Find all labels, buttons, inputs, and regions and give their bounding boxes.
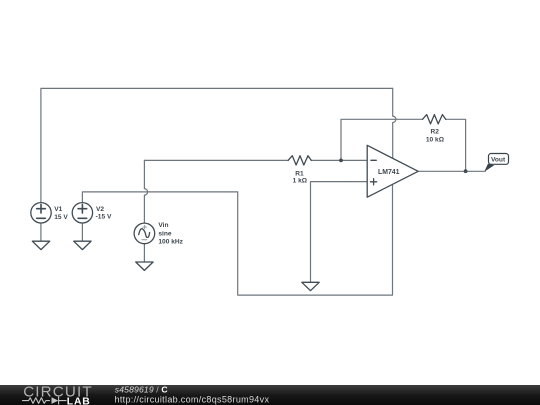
- wire: Vin top vertical with hop over V2 rail: [144, 160, 147, 223]
- resistor R2: [423, 115, 446, 124]
- svg-text:R2: R2: [431, 128, 440, 135]
- wire: V2 bottom to ground: [81, 223, 83, 241]
- wire: R2 right down to output node: [446, 119, 466, 171]
- wire: V1 bottom to ground: [40, 223, 42, 241]
- wire: V2 top to negative supply rail to op-amp V- pin: [82, 185, 392, 296]
- wire: top rail from V1 to op-amp V+ pin: [41, 88, 393, 202]
- svg-text:Vin: Vin: [158, 222, 168, 229]
- svg-text:http://circuitlab.com/c8qs58ru: http://circuitlab.com/c8qs58rum94vx: [115, 395, 270, 405]
- ground symbol under Vin: [136, 262, 153, 270]
- op-amp U1 LM741: [367, 145, 418, 197]
- svg-text:s4589619 / C: s4589619 / C: [115, 385, 168, 395]
- wire: Vin bottom to ground: [143, 244, 145, 262]
- wire: non-inverting input to ground: [311, 182, 368, 283]
- svg-text:LAB: LAB: [67, 397, 91, 405]
- svg-text:Vout: Vout: [491, 157, 506, 164]
- logo resistor zigzag: [23, 398, 50, 404]
- svg-text:100 kHz: 100 kHz: [158, 239, 183, 246]
- wire: feedback node up and across to R2 left: [341, 119, 423, 160]
- wire: Vin node to R1 left: [144, 159, 288, 161]
- svg-text:1 kΩ: 1 kΩ: [293, 177, 308, 184]
- ground symbol under V2: [74, 241, 91, 249]
- wire: R1 right to op-amp inverting input: [311, 159, 367, 161]
- svg-text:15 V: 15 V: [54, 214, 68, 221]
- voltage source V1: [31, 203, 51, 223]
- svg-text:10 kΩ: 10 kΩ: [426, 137, 445, 144]
- footer bar background: [0, 385, 540, 405]
- wire: op-amp V+ pin vertical with hop over feedback: [393, 88, 396, 157]
- wire: op-amp output to Vout flag: [418, 170, 485, 172]
- node flag Vout pointer: [484, 164, 494, 172]
- svg-text:V1: V1: [54, 206, 62, 213]
- logo diode symbol: [52, 397, 59, 404]
- resistor R1: [288, 156, 311, 165]
- svg-text:sine: sine: [158, 230, 172, 237]
- ground symbol at non-inverting input: [302, 282, 319, 290]
- ground symbol under V1: [32, 241, 49, 249]
- svg-text:-15 V: -15 V: [96, 214, 112, 221]
- svg-text:R1: R1: [295, 170, 304, 177]
- sine voltage source Vin: [134, 223, 155, 244]
- node flag Vout box: [489, 154, 509, 165]
- junction node at R1 / feedback: [339, 159, 343, 163]
- junction node at output / R2: [464, 169, 468, 173]
- voltage source V2: [72, 203, 92, 223]
- svg-text:LM741: LM741: [378, 169, 400, 176]
- svg-text:V2: V2: [96, 206, 104, 213]
